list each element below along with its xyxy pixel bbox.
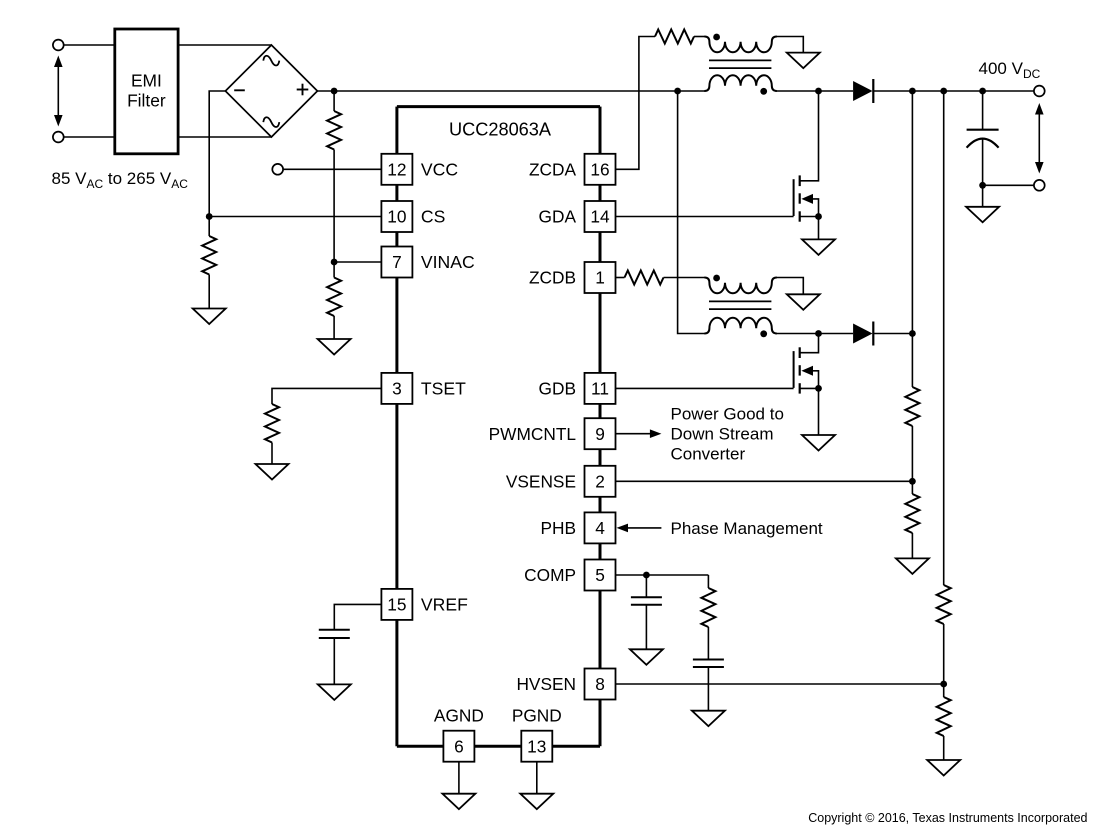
svg-text:10: 10 (387, 207, 406, 227)
capacitor output bulk (967, 130, 999, 148)
output terminal top (1034, 86, 1045, 97)
svg-text:VINAC: VINAC (421, 252, 475, 272)
ground below COMP cap (630, 649, 663, 665)
wire diode B to divider (873, 333, 912, 335)
svg-text:15: 15 (387, 595, 406, 615)
svg-text:PHB: PHB (540, 518, 576, 538)
pin 11 GDB (585, 373, 616, 404)
svg-text:VREF: VREF (421, 595, 468, 615)
wire bridge minus to CS node (209, 91, 225, 236)
wire pin 1 ZCDB to resistor (616, 277, 625, 279)
wire CS node to pin 10 (209, 216, 381, 218)
inductor B main winding (704, 318, 776, 334)
pin 16 ZCDA (585, 154, 616, 185)
svg-text:GDA: GDA (539, 207, 577, 227)
node phase B branch junction (674, 88, 681, 95)
wire rail branch to inductor B (678, 91, 705, 334)
svg-text:16: 16 (590, 160, 609, 180)
input terminal top (53, 40, 64, 51)
transistor Q_B source (800, 387, 819, 389)
svg-text:PGND: PGND (512, 706, 562, 726)
ground at output return (966, 207, 999, 223)
svg-text:Phase Management: Phase Management (671, 519, 823, 538)
VCC bias terminal (272, 164, 283, 175)
svg-text:ZCDB: ZCDB (529, 268, 576, 288)
resistor rail to VINAC divider top (333, 91, 335, 111)
wire rail to HVSEN divider (943, 91, 945, 585)
ground below CS resistor (193, 309, 226, 325)
wire rail to VSENSE divider (911, 91, 913, 334)
wire pin 11 GDB to MOSFET B gate (616, 387, 794, 389)
resistor VSENSE divider upper (905, 387, 919, 426)
svg-text:VSENSE: VSENSE (506, 471, 576, 491)
wire to ground (333, 316, 335, 339)
node rail-cap junction (979, 88, 986, 95)
wire bridge plus to rail (317, 90, 705, 92)
svg-text:COMP: COMP (524, 565, 576, 585)
pin 5 COMP (585, 560, 616, 591)
svg-text:5: 5 (595, 565, 605, 585)
svg-text:12: 12 (387, 160, 406, 180)
pin 6 AGND (443, 731, 474, 762)
svg-text:UCC28063A: UCC28063A (449, 120, 552, 140)
svg-text:13: 13 (527, 736, 546, 756)
wire pin 8 HVSEN to divider (616, 683, 944, 685)
pin 2 VSENSE (585, 466, 616, 497)
ground below VSENSE divider (896, 558, 929, 574)
svg-text:7: 7 (392, 252, 402, 272)
transistor Q_B gate bar (793, 351, 795, 388)
ground below VINAC divider (318, 339, 351, 355)
pin 9 PWMCNTL (585, 418, 616, 449)
transformer A core (709, 59, 771, 61)
svg-text:TSET: TSET (421, 379, 466, 399)
wire return to ground (982, 185, 984, 207)
wire pin 6 to ground (458, 762, 460, 794)
inductor A main winding (704, 75, 776, 91)
svg-text:85 VAC​ to 265 VAC​: 85 VAC​ to 265 VAC​ (52, 169, 189, 191)
wire rail to output capacitor (982, 91, 984, 130)
wire pin 2 VSENSE to divider (616, 480, 913, 482)
AC input voltage range arrow (54, 56, 63, 127)
wire aux winding A to ground (776, 37, 803, 53)
pin 10 CS (381, 201, 412, 232)
transistor Q_B channel (799, 347, 801, 358)
capacitor COMP series (707, 627, 709, 660)
wire VCC terminal to pin 12 (283, 168, 381, 170)
transistor Q_B body-diode arrow (801, 366, 813, 376)
svg-text:6: 6 (454, 736, 464, 756)
svg-text:14: 14 (590, 207, 610, 227)
svg-text:Power Good to: Power Good to (671, 405, 784, 424)
IC UCC28063A outline (397, 107, 600, 747)
arrow into pin 4 PHB (617, 524, 629, 533)
ground at Q_A source (802, 239, 835, 255)
svg-text:ZCDA: ZCDA (529, 159, 577, 179)
wire EMI filter to bridge top (178, 44, 271, 46)
resistor ZCDB series (625, 271, 664, 285)
wire resistor to winding A aux (694, 36, 705, 38)
node rectified rail junction (331, 88, 338, 95)
VREF wire to bypass cap (334, 604, 381, 629)
node winding B dot (760, 330, 767, 337)
node diode B output junction (909, 330, 916, 337)
ground below VREF cap (318, 684, 351, 700)
wire pin 16 ZCDA up (616, 37, 656, 170)
pin 1 ZCDB (585, 262, 616, 293)
transistor Q_A channel (799, 175, 801, 186)
ground at winding B aux (787, 294, 820, 310)
svg-text:3: 3 (392, 379, 402, 399)
transformer A aux winding (704, 37, 776, 53)
transistor Q_A drain (800, 91, 819, 181)
input terminal bottom (53, 132, 64, 143)
wire resistor to winding B aux (664, 277, 706, 279)
pin 7 VINAC (381, 247, 412, 278)
wire return to terminal (983, 184, 1034, 186)
transistor Q_B drain (800, 334, 819, 353)
node MOSFET A drain junction (815, 88, 822, 95)
pin 15 VREF (381, 589, 412, 620)
ground at winding A aux (787, 53, 820, 69)
capacitor VREF bypass (319, 629, 350, 631)
node winding A aux dot (713, 34, 720, 41)
TSET network wire (272, 388, 381, 404)
wire pin 9 PWMCNTL with arrow (616, 433, 651, 435)
ground below PGND (520, 794, 553, 810)
pin 8 HVSEN (585, 669, 616, 700)
diode boost A (853, 79, 873, 103)
svg-text:8: 8 (595, 674, 605, 694)
wire winding B to diode B (776, 333, 853, 335)
resistor HVSEN divider lower (937, 697, 951, 736)
svg-text:EMI: EMI (131, 71, 162, 91)
svg-text:GDB: GDB (539, 379, 576, 399)
label Power Good to Down Stream Converter (671, 405, 784, 464)
EMI Filter block (115, 29, 178, 154)
output voltage arrow (1035, 103, 1044, 174)
transformer B core (709, 300, 771, 302)
pin 12 VCC (381, 154, 412, 185)
wire input bottom to EMI filter (64, 136, 115, 138)
wire resistor to ground (208, 275, 210, 309)
ground below TSET resistor (256, 464, 289, 480)
pin 14 GDA (585, 201, 616, 232)
resistor COMP series (707, 575, 709, 588)
svg-text:1: 1 (595, 268, 605, 288)
node winding A dot (760, 88, 767, 95)
svg-text:Down Stream: Down Stream (671, 425, 774, 444)
node VINAC junction (331, 259, 338, 266)
node CS junction (206, 213, 213, 220)
wire input top to EMI filter (64, 44, 115, 46)
wire pin 14 GDA to MOSFET A gate (616, 216, 794, 218)
node COMP junction (643, 572, 650, 579)
node output return junction (979, 182, 986, 189)
pin 4 PHB (585, 512, 616, 543)
resistor ZCDA series (655, 30, 694, 44)
svg-text:HVSEN: HVSEN (516, 674, 576, 694)
transistor Q_A source (800, 216, 819, 218)
resistor TSET to ground (265, 404, 279, 443)
transistor Q_A gate bar (793, 179, 795, 216)
resistor VINAC divider bottom (333, 262, 335, 278)
svg-text:Copyright © 2016, Texas Instru: Copyright © 2016, Texas Instruments Inco… (808, 811, 1087, 825)
node VSENSE junction (909, 478, 916, 485)
ground below HVSEN divider (927, 760, 960, 776)
transformer B aux winding (704, 278, 776, 294)
svg-text:2: 2 (595, 472, 605, 492)
capacitor COMP to ground (645, 575, 647, 597)
ground below AGND (442, 794, 475, 810)
pin 13 PGND (521, 731, 552, 762)
svg-text:PWMCNTL: PWMCNTL (489, 424, 577, 444)
svg-text:AGND: AGND (434, 706, 484, 726)
svg-text:9: 9 (595, 424, 605, 444)
ground at Q_B source (802, 435, 835, 451)
svg-text:VCC: VCC (421, 159, 458, 179)
wire diode A to output rail (873, 90, 1034, 92)
bridge rectifier (225, 45, 317, 137)
node HVSEN junction (940, 681, 947, 688)
svg-text:CS: CS (421, 207, 445, 227)
transistor Q_A body-diode arrow (801, 194, 813, 204)
wire cap to return node (982, 139, 984, 186)
node MOSFET B drain junction (815, 330, 822, 337)
pin 3 TSET (381, 373, 412, 404)
svg-text:Filter: Filter (127, 91, 166, 111)
resistor CS to ground (202, 236, 216, 275)
node rail-divider junction (909, 88, 916, 95)
wire VINAC node to pin 7 (334, 261, 381, 263)
diode boost B (853, 322, 873, 346)
ground below COMP RC (692, 711, 725, 727)
wire divider to VINAC node (333, 150, 335, 263)
svg-text:4: 4 (595, 518, 605, 538)
wire pin 5 COMP (616, 574, 709, 576)
output terminal bottom (1034, 180, 1045, 191)
svg-text:11: 11 (591, 379, 609, 399)
wire aux winding B to ground (776, 278, 803, 295)
wire pin 13 to ground (536, 762, 538, 794)
resistor HVSEN divider upper (937, 585, 951, 624)
node rail-HVSEN junction (940, 88, 947, 95)
wire EMI filter to bridge bottom (178, 136, 271, 138)
wire winding A to diode A (776, 90, 853, 92)
resistor VSENSE divider lower (905, 494, 919, 533)
svg-text:Converter: Converter (671, 445, 746, 464)
node winding B aux dot (713, 275, 720, 282)
